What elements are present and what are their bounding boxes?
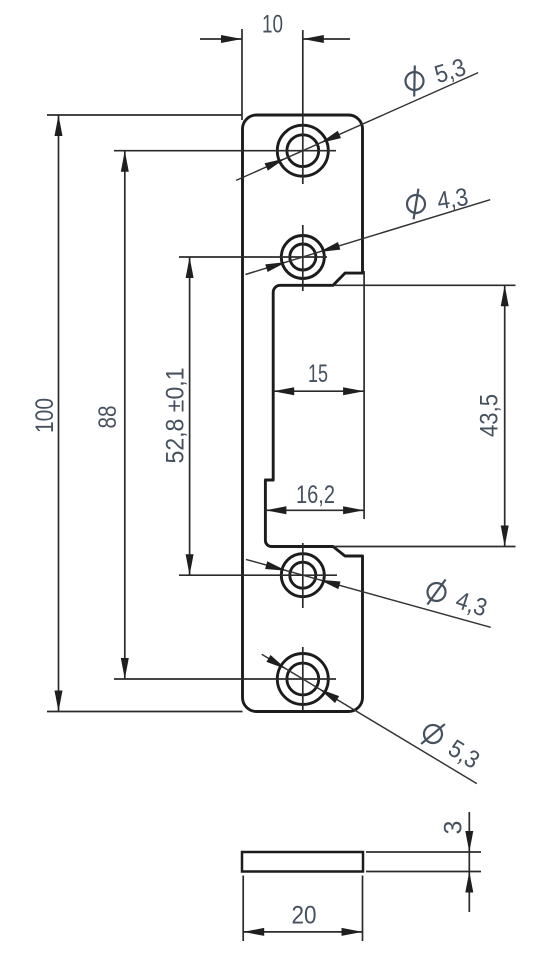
hole 1 horizontal centerline / extension of dim 88 xyxy=(114,150,336,152)
plate outline (front view) xyxy=(243,115,363,712)
dim 20: right extension line xyxy=(362,876,364,942)
dim 3: dimension line middle segment xyxy=(468,852,470,872)
hole 2 (Ø4,3) counterbore circle xyxy=(281,236,324,279)
leader line for hole 2 Ø4,3 xyxy=(245,200,490,275)
dim 3: top extension line xyxy=(366,851,481,853)
dim 52,8: dimension line xyxy=(189,257,191,575)
svg-text:15: 15 xyxy=(308,360,328,388)
hole 1 (top, Ø5,3) counterbore circle xyxy=(277,125,328,176)
dim 16,2: dimension line xyxy=(265,509,364,511)
hole 3 horizontal centerline / extension of dim 52,8 xyxy=(179,574,337,576)
svg-text:16,2: 16,2 xyxy=(296,481,335,509)
label Ø 4,3 (lower): diameter symbol xyxy=(423,575,449,609)
dim 100: top extension line xyxy=(47,114,243,116)
hole 1 vertical centerline / extension of dim 10 xyxy=(302,30,304,184)
dim 15: dimension line xyxy=(273,390,364,392)
dim 43,5: dimension line xyxy=(504,285,506,546)
svg-text:100: 100 xyxy=(31,398,59,433)
dim 43,5: top extension line xyxy=(333,284,516,286)
svg-text:10: 10 xyxy=(262,11,283,39)
dim 100: bottom extension line xyxy=(47,711,243,713)
hole 4 vertical centerline xyxy=(302,647,304,711)
hole 3 vertical centerline xyxy=(302,543,304,608)
hole 3 (Ø4,3) bore circle xyxy=(290,562,316,588)
dim 88: dimension line xyxy=(124,151,126,679)
hole 1 (top, Ø5,3) bore circle xyxy=(287,135,319,167)
hole 3 (Ø4,3) counterbore circle xyxy=(281,554,324,597)
leader arrowheads for hole 2 Ø4,3 xyxy=(318,242,340,256)
label Ø 5,3 (bottom): diameter symbol xyxy=(418,717,449,751)
dim 3: bottom extension line xyxy=(366,871,481,873)
dim 10: left extension line (plate edge plane) xyxy=(241,29,243,120)
dim 100: dimension line xyxy=(58,115,60,712)
hole 4 (bottom, Ø5,3) bore circle xyxy=(287,663,319,695)
hole 2 (Ø4,3) bore circle xyxy=(290,244,316,270)
leader arrowheads for hole 4 Ø5,3 xyxy=(317,685,339,703)
label Ø 4,3 (upper): diameter symbol xyxy=(405,188,427,220)
leader line for hole 4 Ø5,3 xyxy=(262,654,477,783)
dim 20: left extension line xyxy=(242,876,244,942)
hole 4 horizontal centerline / extension of dim 88 xyxy=(114,678,336,680)
svg-text:52,8 ±0,1: 52,8 ±0,1 xyxy=(162,368,190,464)
leader line for hole 3 Ø4,3 xyxy=(246,559,491,627)
label Ø 5,3 (top): diameter symbol xyxy=(402,64,428,97)
dim 3: dimension line upper segment xyxy=(468,812,470,852)
dim 10: left dimension line segment xyxy=(200,38,242,40)
svg-text:43,5: 43,5 xyxy=(476,394,504,437)
dim 43,5: bottom extension line xyxy=(333,546,516,548)
leader arrowheads for hole 1 Ø5,3 xyxy=(319,131,341,147)
hole 2 vertical centerline xyxy=(302,225,304,291)
dim 10: right dimension line segment xyxy=(303,38,350,40)
dim 20: dimension line xyxy=(243,931,362,933)
svg-text:4,3: 4,3 xyxy=(435,183,470,216)
side view plate section (20 x 3 bar) xyxy=(242,852,363,872)
dim 3: dimension line lower segment xyxy=(468,872,470,913)
svg-text:88: 88 xyxy=(94,406,122,429)
hole 4 (bottom, Ø5,3) counterbore circle xyxy=(277,654,328,705)
leader line for hole 1 Ø5,3 xyxy=(236,73,478,181)
hole 2 horizontal centerline / extension of dim 52,8 xyxy=(179,256,327,258)
svg-text:20: 20 xyxy=(292,902,317,930)
leader arrowheads for hole 3 Ø4,3 xyxy=(318,576,340,589)
dim 15: right extension line (plate right plane) xyxy=(363,271,365,519)
svg-text:3: 3 xyxy=(440,821,468,835)
